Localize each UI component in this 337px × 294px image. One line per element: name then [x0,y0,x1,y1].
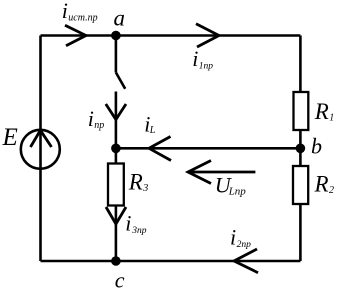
svg-text:L: L [149,125,156,136]
svg-text:2пр: 2пр [237,240,252,250]
resistor R3 [108,164,124,206]
arrow head: i_1пр current direction on top wire [196,24,219,47]
wire: switch to middle node [115,92,118,149]
svg-text:1: 1 [329,113,334,124]
arrow head: i_2пр current direction on bottom wire (pointing left) [234,249,258,273]
wire: R1 to node b [299,130,302,148]
middle node (junction of switch branch, R3, i_L wire) [111,144,121,154]
node a [111,31,121,41]
arrow head: i_пр current direction (pointing down) [106,104,126,120]
switch blade (open switch) [116,73,125,89]
svg-text:3: 3 [142,183,148,194]
wire: node b to R2 [299,148,302,166]
svg-text:i: i [88,106,94,131]
svg-text:E: E [2,124,18,151]
svg-text:R: R [128,170,143,195]
svg-text:c: c [115,267,125,292]
svg-text:b: b [311,134,322,159]
arrow head: i_3пр current direction (pointing down) [106,207,126,224]
arrow head: i_ист.пр current direction on top wire [65,25,86,45]
svg-text:ист.пр: ист.пр [68,12,97,23]
svg-text:Lпр: Lпр [228,186,247,198]
source E arrow head (pointing up inside circle) [31,130,52,147]
svg-text:i: i [125,211,131,236]
wire: top-right segment (node a to top-right corner) [116,34,301,37]
source E circle [21,130,60,169]
wire: top-left segment (left corner to node a) [41,34,116,37]
svg-text:a: a [114,6,126,31]
wire: middle horizontal (middle node to node b) [116,147,301,150]
resistor R2 [293,166,308,204]
svg-text:i: i [230,225,236,250]
svg-text:2: 2 [329,185,334,196]
svg-text:1пр: 1пр [199,61,214,71]
node b [296,144,306,154]
wire: R2 down to bottom-right corner [299,204,302,261]
svg-text:пр: пр [94,120,104,131]
wire: node a down to switch [115,40,118,73]
arrow head: i_L current direction (pointing left) [149,137,171,161]
svg-text:R: R [314,99,329,124]
wire: left side vertical (through source E) [39,36,42,262]
svg-text:R: R [314,172,329,197]
svg-text:i: i [192,46,198,71]
resistor R1 [294,92,309,130]
wire: right side, top corner down to R1 [299,36,302,93]
wire: R3 down to node c [115,206,118,262]
svg-text:i: i [62,0,68,23]
svg-text:3пр: 3пр [131,226,147,236]
arrow: U_Lпр voltage direction (shaft pointing left) [188,171,255,174]
node c [111,256,121,266]
wire: middle node down to R3 [115,148,118,163]
wire: bottom side [41,260,301,263]
